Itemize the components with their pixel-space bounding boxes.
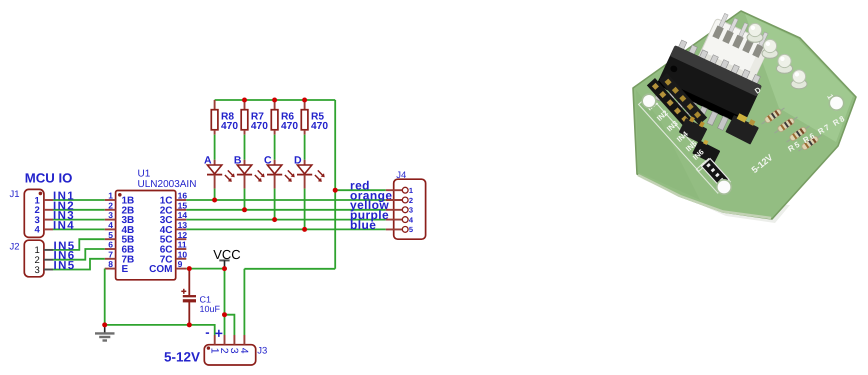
wire IN5 xyxy=(53,239,105,250)
junction xyxy=(187,266,192,271)
silkscreen box bottom (5-12V area) xyxy=(696,158,730,193)
junction xyxy=(222,266,227,271)
svg-text:7: 7 xyxy=(108,249,113,259)
junction xyxy=(102,322,107,327)
resistor at 810,143 xyxy=(797,133,823,154)
svg-text:blue: blue xyxy=(350,218,376,232)
connector J1 xyxy=(10,189,54,237)
junction xyxy=(212,198,217,203)
jumper headers xyxy=(679,114,709,143)
junction xyxy=(242,98,247,103)
junction xyxy=(187,322,192,327)
U1 pin 3 3B xyxy=(105,219,116,221)
wire rail right vertical xyxy=(334,100,336,269)
svg-text:+: + xyxy=(215,325,223,341)
U1 pin 4 4B xyxy=(105,228,116,230)
resistor at 798,134 xyxy=(785,124,811,145)
J4 pin 3 xyxy=(386,209,403,211)
J3 pin 3 xyxy=(233,335,235,345)
wire IN3 xyxy=(53,219,105,221)
svg-text:IN5: IN5 xyxy=(54,260,76,272)
chinese label xyxy=(702,159,729,188)
wire ground row xyxy=(105,325,215,335)
wire resistor to LED B xyxy=(244,135,246,160)
mounting holes xyxy=(642,94,656,108)
silkscreen box around IN labels xyxy=(639,95,710,171)
U1 pin 2 2B xyxy=(105,209,116,211)
LED at 755,30 xyxy=(747,23,763,42)
svg-text:5-12V: 5-12V xyxy=(164,350,200,365)
svg-text:2: 2 xyxy=(409,196,413,205)
wire resistor to LED D xyxy=(304,135,306,160)
wire IN5 xyxy=(53,259,105,270)
svg-text:J2: J2 xyxy=(10,241,20,252)
svg-text:COM: COM xyxy=(149,264,172,275)
svg-text:IN4: IN4 xyxy=(53,220,75,232)
svg-text:14: 14 xyxy=(178,210,188,220)
J4 pin 5 xyxy=(386,228,403,230)
LED A xyxy=(204,155,235,189)
resistor at 786,125 xyxy=(773,115,799,136)
svg-text:3: 3 xyxy=(409,206,413,215)
junction xyxy=(222,312,227,317)
white JST connector xyxy=(694,11,775,93)
svg-text:A: A xyxy=(204,155,212,167)
wire output 2 xyxy=(186,209,385,211)
wire resistor to LED A xyxy=(214,135,216,160)
U1 pin 6 6B xyxy=(105,248,116,250)
wire LED B to output row xyxy=(244,189,246,210)
U1 pin 14 3C xyxy=(176,219,187,221)
junction xyxy=(242,207,247,212)
J3 pin 4 xyxy=(243,335,245,345)
svg-text:J3: J3 xyxy=(257,345,267,356)
wire IN2 xyxy=(53,209,105,211)
U1 pin 12 5C xyxy=(176,238,187,240)
svg-text:4: 4 xyxy=(238,348,250,354)
svg-text:MCU IO: MCU IO xyxy=(25,171,73,186)
LED at 770,46 xyxy=(762,39,778,58)
wire VCC down to J3 pin2 xyxy=(224,269,226,335)
power symbol VCC xyxy=(213,247,240,269)
wire LED C to output row xyxy=(274,189,276,220)
junction xyxy=(272,98,277,103)
wire output 4 xyxy=(186,228,385,230)
PCB board photo xyxy=(633,11,856,223)
svg-text:12: 12 xyxy=(178,230,188,240)
svg-text:5: 5 xyxy=(409,225,413,234)
svg-text:470: 470 xyxy=(221,121,238,132)
wire IN4 xyxy=(53,228,105,230)
connector J2 xyxy=(10,240,54,277)
U1 pin 8 E xyxy=(105,268,116,270)
resistor at 773,116 xyxy=(760,106,786,127)
svg-text:470: 470 xyxy=(281,121,298,132)
U1 pin 11 6C xyxy=(176,248,187,250)
svg-text:4: 4 xyxy=(108,220,113,230)
svg-text:11: 11 xyxy=(178,240,187,250)
wire E pin to ground xyxy=(104,269,106,325)
svg-text:5: 5 xyxy=(108,230,113,240)
wire IN1 xyxy=(53,199,105,201)
LED D xyxy=(294,155,325,189)
wire J3 pin4 vertical xyxy=(243,269,245,335)
J4 pin 4 xyxy=(386,219,403,221)
capacitor C1 10uF xyxy=(181,269,220,325)
board sheen top right xyxy=(745,14,853,142)
svg-text:470: 470 xyxy=(311,121,328,132)
connector J4 xyxy=(386,170,426,239)
svg-text:13: 13 xyxy=(178,220,188,230)
junction xyxy=(333,188,338,193)
ground symbol xyxy=(95,325,115,341)
LED C xyxy=(264,155,295,189)
svg-text:3: 3 xyxy=(108,210,113,220)
svg-text:D: D xyxy=(294,155,302,167)
svg-text:J4: J4 xyxy=(396,170,406,181)
svg-text:ULN2003AIN: ULN2003AIN xyxy=(138,179,197,190)
wire VCC rail top xyxy=(215,99,336,101)
junction xyxy=(272,217,277,222)
LED at 784.5,61 xyxy=(777,54,793,73)
J3 pin 1 xyxy=(214,335,216,345)
J3 pin 2 xyxy=(224,335,226,345)
U1 pin 5 5B xyxy=(105,238,116,240)
svg-text:3: 3 xyxy=(35,265,40,276)
svg-text:E: E xyxy=(122,264,129,275)
svg-text:1: 1 xyxy=(409,186,413,195)
U1 pin 9 COM xyxy=(176,268,187,270)
junction xyxy=(302,227,307,232)
connector J3 5-12V xyxy=(164,325,267,365)
resistor R8 470 xyxy=(211,100,238,135)
U1 pin 1 1B xyxy=(105,199,116,201)
wire LED A to output row xyxy=(214,189,216,200)
svg-text:2: 2 xyxy=(108,200,113,210)
svg-text:470: 470 xyxy=(251,121,268,132)
svg-text:16: 16 xyxy=(178,191,188,201)
wire red row xyxy=(335,189,386,191)
board shadow xyxy=(640,178,790,223)
wire output 1 xyxy=(186,199,385,201)
wire to J3 pin4 horizontal xyxy=(244,268,335,270)
resistor R5 470 xyxy=(301,100,328,135)
resistor R6 470 xyxy=(271,100,298,135)
LED at 799,76.5 xyxy=(791,70,807,89)
svg-text:15: 15 xyxy=(178,200,188,210)
board bottom edge highlight xyxy=(638,175,771,218)
svg-text:1: 1 xyxy=(108,191,113,201)
U1 pin 10 7C xyxy=(176,258,187,260)
wire LED D to output row xyxy=(304,189,306,230)
board lower left tint xyxy=(636,90,700,200)
svg-text:4: 4 xyxy=(409,215,414,224)
resistor R7 470 xyxy=(241,100,268,135)
wire IN6 xyxy=(53,249,105,260)
wire output 3 xyxy=(186,219,385,221)
U1 pin 13 4C xyxy=(176,228,187,230)
ULN2003 DIP chip xyxy=(651,38,765,137)
svg-text:4: 4 xyxy=(35,225,41,236)
svg-text:B: B xyxy=(234,155,242,167)
U1 pin 7 7B xyxy=(105,258,116,260)
svg-text:6: 6 xyxy=(108,240,113,250)
LED B xyxy=(234,155,265,189)
svg-text:10uF: 10uF xyxy=(200,304,221,314)
black female headers with gold pins xyxy=(647,78,693,127)
svg-text:9: 9 xyxy=(178,259,183,269)
svg-text:J1: J1 xyxy=(10,189,20,200)
J4 pin 2 xyxy=(386,199,403,201)
svg-text:-: - xyxy=(205,325,209,340)
board outline xyxy=(633,11,856,219)
wire resistor to LED C xyxy=(274,135,276,160)
svg-text:8: 8 xyxy=(108,259,113,269)
IC U1 ULN2003AIN xyxy=(105,169,197,280)
svg-text:10: 10 xyxy=(178,249,188,259)
J4 pin 1 xyxy=(386,189,403,191)
junction xyxy=(302,98,307,103)
wire COM to VCC node xyxy=(186,268,224,270)
U1 pin 15 2C xyxy=(176,209,187,211)
U1 pin 16 1C xyxy=(176,199,187,201)
svg-text:C: C xyxy=(264,155,272,167)
wire branch to J3 pin3 xyxy=(225,315,235,335)
